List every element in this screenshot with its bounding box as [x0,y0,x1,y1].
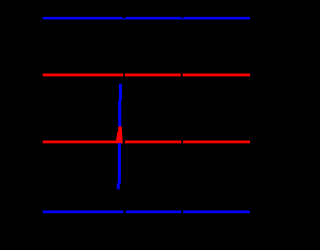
wire: third rail net V3 (red), right segment [183,141,250,144]
current arrow at junction with third rail (points up) [116,127,123,143]
wire crossing gap on top rail (left, at x~124) [123,15,126,18]
wire: vertical branch, lower blue tail (stepped left) [117,183,120,189]
wire: second rail net V2 (red), left segment [43,74,124,77]
wire: vertical branch, upper blue section lower half (stepped left) [118,101,121,127]
wire: vertical branch, lower blue section [118,143,121,184]
wire crossing gap on top rail (right, at x~182) [181,15,183,18]
wire: third rail net V3 (red), left segment [43,141,123,144]
wire: vertical branch, upper blue section [119,84,122,101]
wire: third rail net V3 (red), middle segment [125,141,181,144]
wire: bottom rail net V4 (blue), right segment [183,211,250,214]
wire: top rail net V1 (blue) [43,17,250,20]
wire: bottom rail net V4 (blue), left segment [43,211,124,214]
wire: second rail net V2 (red), right segment [183,74,250,77]
wire: vertical branch, red stem at junction [118,126,121,143]
wire: bottom rail net V4 (blue), middle segment [126,211,182,214]
wire: second rail net V2 (red), middle segment [125,74,181,77]
